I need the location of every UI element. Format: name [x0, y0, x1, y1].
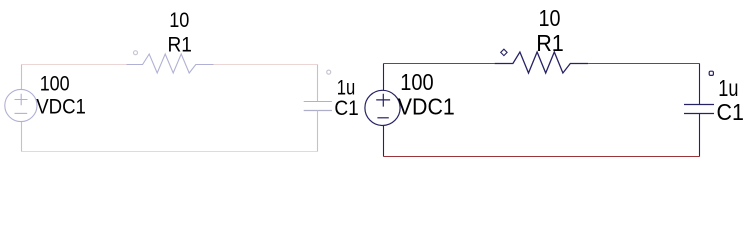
svg-text:1u: 1u: [718, 75, 738, 101]
resistor R1 (ghost): [127, 54, 214, 73]
node marker near R1 (diamond): [501, 49, 507, 55]
svg-text:10: 10: [169, 8, 189, 32]
wire bottom: [384, 156, 700, 158]
voltage source VDC1 (ghost) : top lead: [21, 65, 23, 90]
voltage source VDC1 (ghost) : circle: [5, 89, 37, 121]
resistor R1: [495, 52, 589, 73]
voltage source VDC1 (ghost) : plus sign: [15, 94, 28, 105]
capacitor C1 (ghost) : bottom lead: [317, 111, 319, 152]
capacitor C1 : bottom plate: [684, 113, 714, 115]
voltage source VDC1 (ghost) : bottom lead: [21, 122, 23, 152]
voltage source VDC1 : minus sign: [377, 117, 388, 119]
capacitor C1 : top lead: [699, 64, 701, 105]
wire top-left (ghost): [22, 64, 127, 66]
svg-text:C1: C1: [717, 99, 744, 125]
wire top-right segment: [588, 63, 699, 65]
capacitor C1 (ghost) : top plate: [304, 101, 332, 103]
wire top-right segment (ghost): [214, 64, 318, 66]
voltage source VDC1 : top lead: [383, 64, 385, 91]
svg-text:100: 100: [400, 69, 433, 95]
voltage source VDC1 : circle: [365, 90, 400, 125]
node marker near C1: [709, 71, 713, 75]
voltage source VDC1 (ghost) : minus sign: [15, 112, 28, 114]
svg-text:VDC1: VDC1: [398, 93, 455, 119]
svg-text:VDC1: VDC1: [36, 94, 86, 118]
svg-text:R1: R1: [168, 32, 192, 56]
capacitor C1 : top plate: [684, 104, 714, 106]
svg-text:R1: R1: [536, 30, 564, 56]
svg-text:100: 100: [40, 72, 70, 96]
capacitor C1 : bottom lead: [699, 114, 701, 157]
svg-text:C1: C1: [334, 96, 358, 120]
wire bottom (ghost): [22, 151, 318, 153]
node marker near C1 (ghost): [327, 70, 331, 74]
voltage source VDC1 : plus sign: [376, 94, 390, 107]
node marker near R1 (ghost): [134, 51, 138, 55]
svg-text:10: 10: [539, 5, 561, 31]
wire top-left: [384, 63, 495, 65]
capacitor C1 (ghost) : bottom plate: [304, 110, 332, 112]
capacitor C1 (ghost) : top lead: [317, 65, 319, 102]
voltage source VDC1 : bottom lead: [383, 126, 385, 157]
